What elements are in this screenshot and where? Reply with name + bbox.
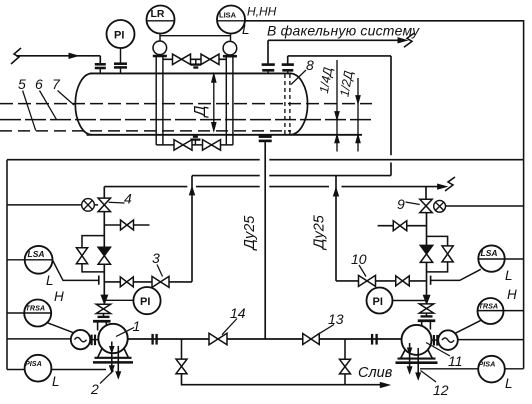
instrument LR (level recorder) bbox=[147, 6, 175, 34]
instrument PISA left bbox=[7, 355, 106, 382]
suction flow arrow pump 11 bbox=[423, 295, 430, 304]
level gauge standpipe 2 bbox=[225, 57, 227, 145]
svg-text:L: L bbox=[242, 22, 250, 37]
dimension 1/4D bbox=[317, 60, 339, 152]
discharge riser of pump 11 bbox=[334, 176, 339, 281]
drain valve left bbox=[176, 359, 187, 366]
PI nozzle flange bbox=[114, 64, 127, 74]
line to control valve 4 bbox=[7, 204, 98, 206]
label 9 with leader bbox=[397, 196, 420, 212]
main suction line of pump 1 bbox=[103, 212, 105, 305]
svg-text:L: L bbox=[52, 374, 60, 389]
svg-text:12: 12 bbox=[433, 382, 449, 398]
svg-text:3: 3 bbox=[152, 250, 160, 266]
label 5 with leader bbox=[18, 76, 36, 131]
gauge PI pump 11 bbox=[367, 288, 427, 314]
bypass valve (open) left bbox=[76, 248, 87, 256]
panel top edge bbox=[7, 159, 260, 161]
label 10 with leader bbox=[351, 251, 367, 277]
signal line LISA to right panel bbox=[245, 21, 524, 160]
svg-text:5: 5 bbox=[18, 76, 26, 92]
dimension D (vessel diameter) bbox=[192, 74, 216, 131]
drain drop right bbox=[344, 339, 346, 359]
pump 1 bbox=[93, 324, 133, 363]
pump 11 drain lines bbox=[407, 343, 420, 379]
discharge riser of pump 1 bbox=[190, 176, 195, 282]
svg-text:10: 10 bbox=[351, 251, 367, 267]
pump 1 drain lines bbox=[110, 342, 121, 379]
TRSA right signal line to motor bbox=[455, 320, 481, 333]
instrument LISA (level alarm) bbox=[217, 6, 245, 34]
label 3 with leader bbox=[152, 250, 163, 277]
gauge bottom valve b bbox=[203, 140, 212, 151]
svg-text:13: 13 bbox=[328, 311, 344, 327]
flare line to flare system bbox=[268, 33, 414, 64]
liquid level dashed line (lower) bbox=[0, 130, 291, 132]
gauge top valve line bbox=[163, 58, 226, 60]
main suction line of pump 11 bbox=[426, 213, 428, 304]
svg-text:14: 14 bbox=[230, 305, 246, 321]
motor of pump 1 bbox=[71, 330, 90, 349]
suction flange pump 1 bbox=[93, 314, 111, 331]
svg-text:LR: LR bbox=[151, 8, 165, 20]
instrument PISA right bbox=[420, 356, 524, 383]
svg-text:H: H bbox=[54, 289, 64, 304]
gauge top valve a bbox=[173, 54, 182, 65]
label 8 with leader bbox=[291, 57, 314, 85]
valve 10 bbox=[359, 275, 368, 286]
svg-text:L: L bbox=[505, 268, 513, 283]
inlet nozzle flange bbox=[95, 64, 106, 73]
valve 13 bbox=[303, 334, 311, 345]
gauge bottom vent bbox=[190, 137, 200, 145]
valve 10 line bbox=[336, 280, 427, 282]
TRSA signal line to motor bbox=[48, 323, 75, 333]
motor power line left bbox=[7, 338, 71, 340]
valve 3 line bbox=[104, 281, 192, 283]
svg-text:PISA: PISA bbox=[25, 359, 42, 368]
LISA stem and float chamber bbox=[223, 34, 237, 57]
bypass loop right bbox=[427, 236, 448, 272]
svg-text:Ду25: Ду25 bbox=[312, 214, 328, 251]
instrument LSA right bbox=[478, 245, 523, 271]
tie line between level instrument stems bbox=[160, 35, 231, 37]
LSA impulse line bbox=[53, 260, 99, 285]
coupling pump 1 bbox=[90, 335, 98, 346]
pump discharge header to consumers bbox=[104, 177, 455, 198]
liquid level dashed line (upper) bbox=[0, 119, 372, 121]
svg-text:8: 8 bbox=[306, 57, 314, 73]
svg-text:TRSA: TRSA bbox=[26, 304, 46, 313]
check valve on main (filled) right bbox=[420, 245, 432, 254]
dimension 1/2D bbox=[337, 70, 360, 152]
drain drop left bbox=[181, 339, 183, 359]
motor power line right bbox=[458, 339, 524, 341]
valve 9 bbox=[420, 199, 432, 206]
svg-text:LSA: LSA bbox=[481, 248, 498, 258]
vessel axis dashed line bbox=[0, 103, 372, 105]
svg-text:L: L bbox=[46, 273, 54, 288]
suction flange pump 11 bbox=[418, 313, 436, 330]
LR stem and float chamber bbox=[153, 34, 167, 57]
svg-text:Д: Д bbox=[192, 105, 209, 118]
bypass loop left bbox=[82, 236, 104, 272]
vent branch with valve (left) bbox=[104, 220, 149, 230]
svg-text:2: 2 bbox=[90, 381, 99, 397]
drain valve right bbox=[340, 359, 351, 366]
motor of pump 11 bbox=[438, 330, 458, 350]
gauge top valve b bbox=[201, 54, 210, 65]
gauge PI pump 1 bbox=[104, 287, 160, 314]
suction valve pump 11 bbox=[419, 304, 433, 309]
check valve on main (filled) left bbox=[98, 247, 110, 256]
svg-text:7: 7 bbox=[52, 76, 61, 92]
instrument LSA left bbox=[7, 246, 53, 274]
crossover suction line bbox=[128, 338, 402, 340]
suction downcomer Du25 bbox=[264, 141, 266, 339]
svg-text:В факельную систему: В факельную систему bbox=[267, 23, 420, 39]
svg-text:Н,НН: Н,НН bbox=[247, 5, 277, 19]
gauge bottom valve a bbox=[174, 140, 183, 151]
recycle return line from pumps to vessel bbox=[192, 56, 391, 176]
suction flow arrow pump 1 bbox=[101, 295, 108, 304]
instrument TRSA left bbox=[7, 300, 51, 327]
pump 11 bbox=[396, 325, 438, 363]
vessel bottom outlet nozzle bbox=[259, 137, 272, 141]
flange pair left bbox=[153, 334, 157, 345]
svg-text:Слив: Слив bbox=[358, 365, 393, 381]
svg-text:LISA: LISA bbox=[219, 11, 237, 20]
recycle nozzle flange bbox=[282, 65, 294, 74]
drain line to sewer bbox=[182, 374, 390, 388]
small valve right of valve 10 bbox=[396, 276, 403, 286]
gauge top vent bbox=[191, 59, 201, 67]
instrument TRSA right bbox=[478, 298, 524, 324]
label 13 with leader bbox=[318, 311, 344, 335]
flange pair right bbox=[372, 334, 377, 345]
svg-text:Ду25: Ду25 bbox=[242, 215, 258, 252]
label 4 with leader bbox=[109, 191, 132, 207]
bypass valve (open) right bbox=[442, 246, 453, 254]
gauge PI (vessel pressure) bbox=[107, 20, 135, 64]
suction valve pump 1 bbox=[96, 304, 110, 309]
vent branch with valve (right) bbox=[378, 221, 427, 231]
gauge bottom valve line bbox=[156, 144, 233, 146]
svg-text:4: 4 bbox=[124, 191, 132, 207]
svg-text:PI: PI bbox=[114, 30, 124, 42]
svg-text:PI: PI bbox=[373, 296, 383, 308]
small valve left of valve 3 bbox=[120, 277, 127, 287]
label 11 with leader bbox=[426, 343, 463, 370]
label 2 with leader bbox=[90, 371, 114, 398]
vessel tangent (weld) lines bbox=[284, 74, 286, 134]
label 14 with leader bbox=[222, 305, 246, 335]
label 1 with leader bbox=[116, 318, 140, 337]
svg-text:6: 6 bbox=[35, 76, 43, 92]
closed drain symbol left bbox=[82, 199, 95, 212]
svg-text:9: 9 bbox=[397, 196, 405, 212]
coupling pump 11 bbox=[432, 335, 439, 346]
closed drain symbol right bbox=[434, 200, 446, 212]
LSA impulse line right bbox=[431, 269, 481, 285]
label 7 with leader bbox=[52, 76, 74, 105]
valve 4 bbox=[98, 198, 110, 205]
label 6 with leader bbox=[35, 76, 57, 120]
svg-text:PISA: PISA bbox=[479, 360, 496, 369]
svg-text:PI: PI bbox=[140, 296, 150, 308]
valve 14 bbox=[209, 333, 218, 344]
separator vessel shell bbox=[75, 73, 362, 134]
panel right edge bbox=[523, 160, 525, 369]
level gauge standpipe 1 bbox=[155, 57, 157, 145]
svg-text:1: 1 bbox=[133, 318, 141, 334]
svg-text:L: L bbox=[505, 376, 513, 391]
svg-text:H: H bbox=[507, 287, 517, 302]
svg-text:TRSA: TRSA bbox=[479, 302, 499, 311]
label 12 with leader bbox=[421, 371, 449, 399]
flare nozzle flange bbox=[262, 65, 275, 74]
drain valve right tail bbox=[344, 374, 346, 385]
drop to valve 9 bbox=[425, 187, 427, 200]
inlet line with break symbol bbox=[11, 48, 100, 64]
valve 3 bbox=[152, 276, 161, 287]
line from valve 9 to panel bbox=[446, 205, 524, 207]
svg-text:LSA: LSA bbox=[28, 249, 45, 259]
panel left edge bbox=[6, 160, 8, 370]
